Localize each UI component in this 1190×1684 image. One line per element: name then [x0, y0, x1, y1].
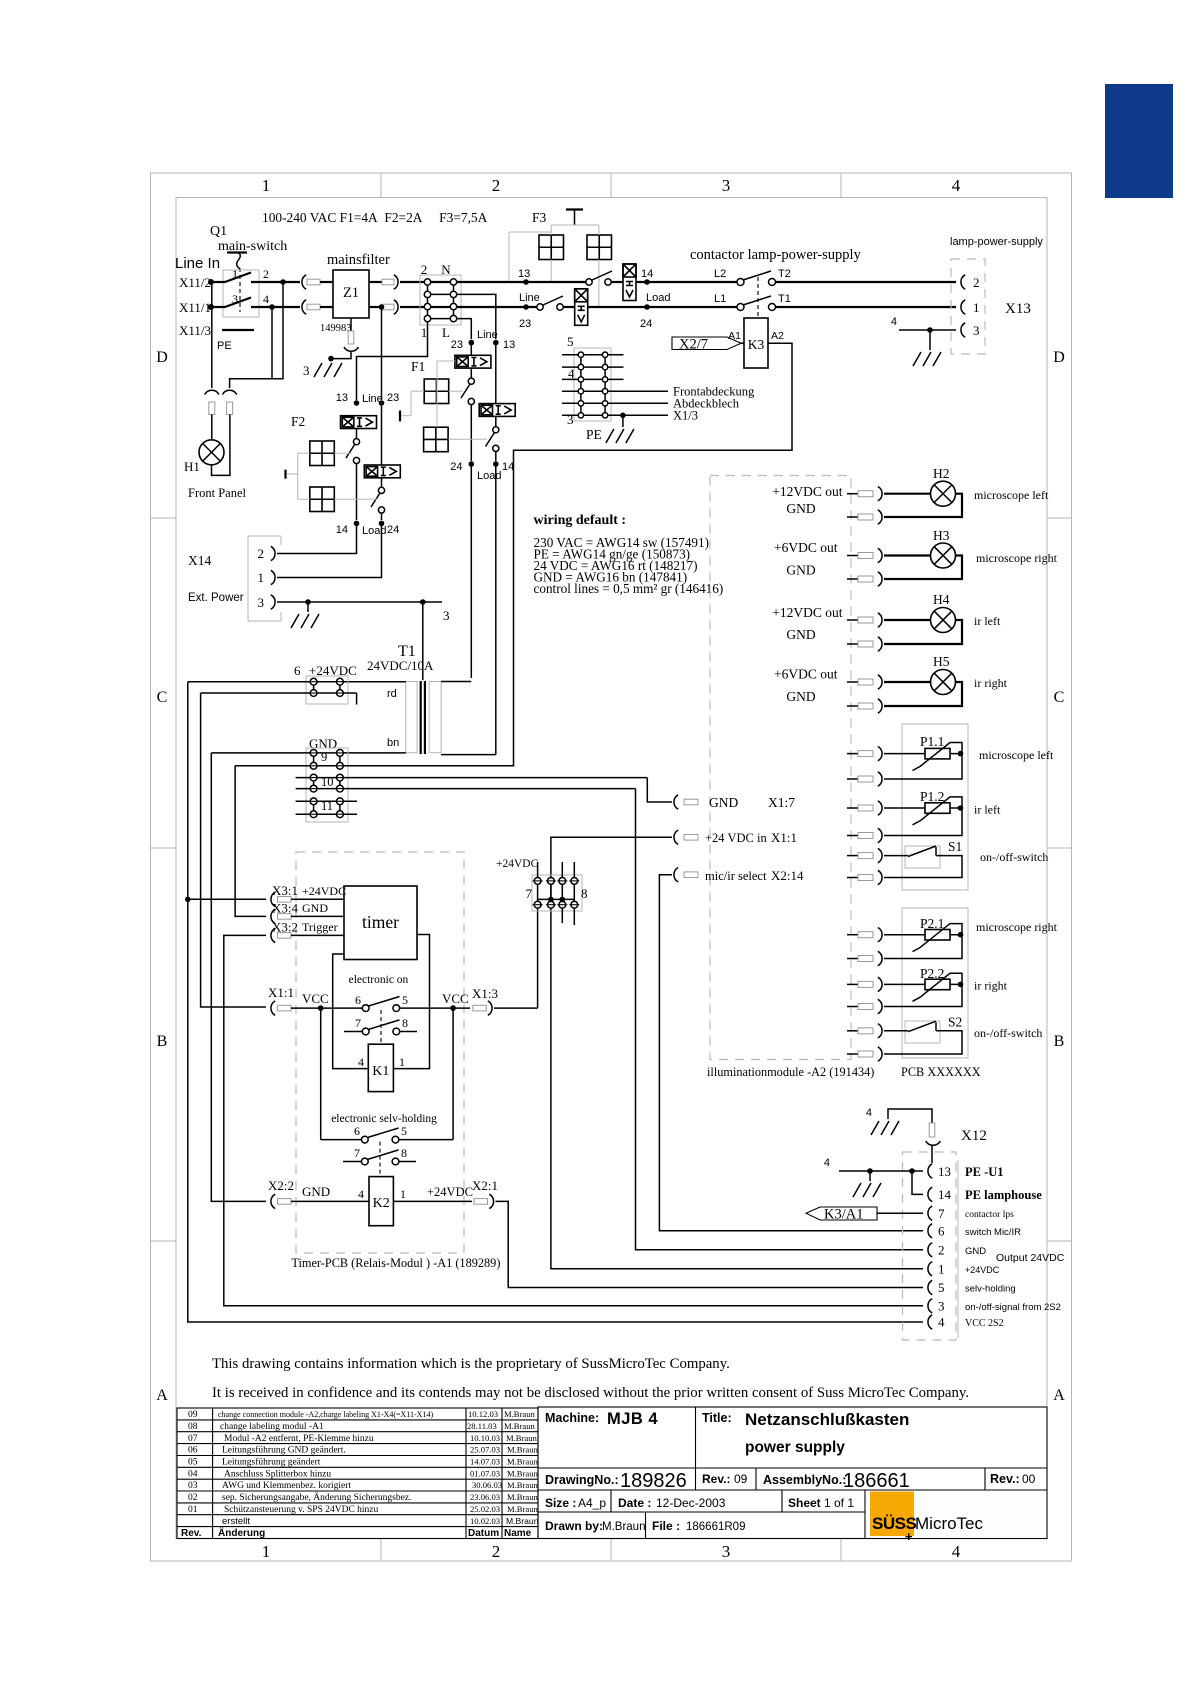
- svg-text:X11/3: X11/3: [179, 323, 211, 338]
- svg-text:X1:3: X1:3: [472, 986, 498, 1001]
- svg-text:M.Braun: M.Braun: [507, 1480, 538, 1490]
- Z1 ground lead: [350, 318, 352, 331]
- svg-text:H1: H1: [184, 459, 200, 474]
- svg-text:M.Braun: M.Braun: [507, 1504, 538, 1514]
- svg-text:Rev.:: Rev.:: [702, 1472, 730, 1486]
- connector X12 dashed outline: [903, 1152, 957, 1340]
- svg-text:M.Braun: M.Braun: [504, 1421, 535, 1431]
- svg-text:4: 4: [891, 316, 897, 328]
- svg-text:Rev.:: Rev.:: [990, 1472, 1020, 1486]
- connector +24VDC in X1:1: [674, 830, 678, 844]
- svg-text:X2:14: X2:14: [771, 868, 804, 883]
- svg-text:GND: GND: [302, 1184, 330, 1199]
- svg-text:D: D: [1053, 349, 1065, 366]
- svg-text:mainsfilter: mainsfilter: [327, 252, 390, 268]
- wire terminal6 row1: [188, 681, 337, 683]
- svg-text:on-/off-switch: on-/off-switch: [974, 1026, 1042, 1040]
- svg-text:Q1: Q1: [210, 224, 227, 239]
- svg-text:Schützansteuerung v. SPS 24VDC: Schützansteuerung v. SPS 24VDC hinzu: [224, 1505, 379, 1515]
- wire GND row9 top: [211, 752, 337, 754]
- svg-text:06: 06: [188, 1446, 198, 1456]
- svg-text:4: 4: [358, 1187, 364, 1201]
- svg-text:23.06.03: 23.06.03: [470, 1492, 500, 1502]
- X12 pin 2: [928, 1243, 932, 1257]
- wire PE to transformer core: [422, 602, 424, 680]
- svg-text:AWG und Klemmenbez. korigiert: AWG und Klemmenbez. korigiert: [222, 1481, 351, 1491]
- svg-text:It is received in confidence a: It is received in confidence and its con…: [212, 1385, 969, 1401]
- svg-text:GND: GND: [302, 901, 328, 915]
- line switch row 23: [537, 304, 543, 310]
- wire GND row11 stubs: [296, 800, 357, 802]
- X12 pin 7: [928, 1206, 932, 1220]
- F2 port tick: [284, 470, 286, 479]
- svg-text:Netzanschlußkasten: Netzanschlußkasten: [745, 1410, 909, 1429]
- svg-text:1: 1: [258, 570, 265, 585]
- svg-text:Name: Name: [504, 1528, 532, 1539]
- F2 breaker 23-24: [364, 465, 400, 478]
- wire F1-24 to transformer primary top: [470, 464, 472, 678]
- Q1 pole 1-2 blade: [225, 273, 251, 283]
- K3 mechanical link: [757, 277, 759, 318]
- wire terminal row N2 to F1-13 branch: [457, 294, 496, 339]
- svg-text:Modul -A2 entfernt, PE-Klemme: Modul -A2 entfernt, PE-Klemme hinzu: [224, 1433, 374, 1444]
- svg-text:H3: H3: [933, 528, 950, 543]
- svg-text:+12VDC out: +12VDC out: [772, 605, 842, 620]
- svg-text:M.Braun: M.Braun: [507, 1457, 538, 1467]
- F3 fuse squares: [539, 235, 564, 260]
- svg-text:4: 4: [358, 1055, 364, 1069]
- wire L column to F2-13 branch: [357, 322, 428, 400]
- svg-text:M.Braun: M.Braun: [507, 1445, 538, 1455]
- svg-text:149983: 149983: [320, 323, 352, 334]
- svg-text:14: 14: [336, 524, 348, 536]
- svg-text:3: 3: [258, 595, 265, 610]
- svg-text:Machine:: Machine:: [545, 1411, 599, 1425]
- svg-text:09: 09: [734, 1472, 748, 1486]
- svg-text:X3:1: X3:1: [272, 883, 298, 898]
- svg-text:Datum: Datum: [468, 1528, 499, 1539]
- ground at X12 PE: [853, 1183, 881, 1197]
- revision table: [177, 1408, 538, 1539]
- wire GND X1:7: [647, 778, 672, 802]
- svg-text:M.Braun: M.Braun: [602, 1521, 645, 1533]
- svg-text:AssemblyNo.:: AssemblyNo.:: [763, 1473, 846, 1487]
- svg-text:ir left: ir left: [974, 803, 1001, 817]
- svg-text:07: 07: [188, 1434, 198, 1444]
- svg-text:8: 8: [402, 1016, 408, 1030]
- svg-text:Drawn by:: Drawn by:: [545, 1519, 603, 1533]
- Z1 output wires: [369, 281, 382, 283]
- svg-text:3: 3: [938, 1299, 945, 1314]
- svg-text:23: 23: [451, 339, 463, 351]
- svg-text:Line: Line: [362, 393, 383, 405]
- svg-text:5: 5: [402, 993, 408, 1007]
- svg-text:5: 5: [401, 1124, 407, 1138]
- svg-text:PE: PE: [586, 427, 602, 442]
- svg-text:MicroTec: MicroTec: [915, 1514, 984, 1533]
- svg-text:+: +: [905, 1529, 913, 1544]
- svg-text:+24 VDC in: +24 VDC in: [705, 831, 767, 845]
- blue corner rectangle: [1105, 84, 1173, 198]
- main switch Q1 actuator: [227, 251, 247, 253]
- svg-text:5: 5: [567, 334, 574, 349]
- svg-text:A4_p: A4_p: [578, 1496, 606, 1510]
- svg-text:X1:7: X1:7: [768, 795, 795, 810]
- svg-text:F2: F2: [291, 414, 305, 429]
- svg-text:3: 3: [303, 363, 310, 378]
- svg-text:09: 09: [188, 1410, 198, 1420]
- SUSS MicroTec logo: [866, 1491, 1047, 1538]
- svg-text:1: 1: [262, 1542, 271, 1561]
- svg-text:Z1: Z1: [343, 285, 359, 301]
- svg-text:7: 7: [355, 1016, 361, 1030]
- svg-text:B: B: [1054, 1033, 1065, 1050]
- svg-text:1: 1: [262, 176, 271, 195]
- svg-text:+6VDC out: +6VDC out: [774, 540, 838, 555]
- svg-text:186661: 186661: [843, 1470, 910, 1492]
- svg-text:timer: timer: [362, 912, 399, 932]
- svg-text:4: 4: [938, 1315, 945, 1330]
- X12 pin 13: [928, 1164, 932, 1178]
- wire X2:1 to X12 pin5: [496, 1201, 924, 1287]
- svg-text:X13: X13: [1005, 301, 1031, 317]
- wire GND row10 bottom to X12 pin2: [296, 788, 636, 790]
- svg-text:Date :: Date :: [618, 1496, 651, 1510]
- ground at X14: [291, 614, 319, 628]
- ground at X13: [913, 352, 941, 366]
- svg-text:1: 1: [400, 1187, 406, 1201]
- svg-text:mic/ir select: mic/ir select: [705, 869, 767, 883]
- X12 pin 14: [928, 1187, 932, 1201]
- svg-text:A: A: [1053, 1387, 1065, 1404]
- svg-text:01: 01: [188, 1505, 198, 1515]
- svg-text:X2:1: X2:1: [472, 1178, 498, 1193]
- svg-text:13: 13: [938, 1164, 951, 1179]
- svg-text:+24VDC: +24VDC: [496, 858, 539, 870]
- X12 pin 5: [928, 1280, 932, 1294]
- H1 feed wires: [211, 282, 213, 388]
- svg-text:6: 6: [354, 1124, 360, 1138]
- lamp H1: [211, 415, 213, 441]
- terminal block N/L: [420, 275, 461, 325]
- svg-text:100-240 VAC F1=4A F2=2A F: 100-240 VAC F1=4A F2=2A F3=7,5A: [262, 210, 488, 225]
- left ruler ticks: [151, 518, 177, 1241]
- svg-text:sep. Sicherungsangabe, Änderun: sep. Sicherungsangabe, Änderung Sicherun…: [222, 1491, 411, 1503]
- svg-text:X11/1: X11/1: [179, 300, 211, 315]
- F2 fuse squares: [310, 441, 335, 466]
- svg-text:Front Panel: Front Panel: [188, 486, 247, 500]
- svg-text:M.Braun: M.Braun: [507, 1492, 538, 1502]
- svg-text:microscope left: microscope left: [979, 748, 1054, 762]
- wire timer to K1 coil right: [393, 935, 429, 1069]
- svg-text:H2: H2: [933, 466, 950, 481]
- svg-text:2: 2: [258, 546, 265, 561]
- svg-text:X2/7: X2/7: [679, 337, 708, 353]
- svg-text:7: 7: [354, 1146, 360, 1160]
- svg-text:13: 13: [503, 339, 515, 351]
- connector mic/ir select X2:14: [674, 868, 678, 882]
- X12 pin 4: [928, 1315, 932, 1329]
- title block grid: [538, 1407, 1047, 1539]
- svg-text:K3: K3: [748, 337, 765, 352]
- svg-text:5: 5: [938, 1280, 945, 1295]
- svg-text:C: C: [1054, 689, 1065, 706]
- svg-text:2: 2: [973, 275, 980, 290]
- svg-text:GND: GND: [786, 563, 815, 578]
- svg-text:Load: Load: [477, 470, 501, 482]
- svg-text:Rev.: Rev.: [181, 1528, 202, 1539]
- svg-text:PE lamphouse: PE lamphouse: [965, 1188, 1042, 1202]
- ground at Z1: [314, 363, 342, 377]
- svg-text:04: 04: [188, 1469, 198, 1479]
- svg-text:T1: T1: [778, 293, 791, 305]
- svg-text:wiring default :: wiring default :: [534, 513, 627, 528]
- svg-text:ir right: ir right: [974, 979, 1008, 993]
- svg-text:PE -U1: PE -U1: [965, 1165, 1004, 1179]
- bundle wire v4 trigger to X12 pin3: [224, 935, 923, 1305]
- wire timer to K1 coil left: [333, 954, 369, 1069]
- svg-text:2: 2: [263, 267, 269, 281]
- svg-text:GND: GND: [786, 689, 815, 704]
- svg-text:23: 23: [387, 392, 399, 404]
- svg-text:3: 3: [973, 323, 980, 338]
- svg-text:+12VDC out: +12VDC out: [772, 484, 842, 499]
- svg-text:3: 3: [722, 1542, 731, 1561]
- svg-text:189826: 189826: [620, 1470, 687, 1492]
- svg-text:13: 13: [518, 268, 530, 280]
- svg-text:10.10.03: 10.10.03: [470, 1433, 500, 1443]
- svg-text:1: 1: [399, 1055, 405, 1069]
- svg-text:X1:1: X1:1: [771, 830, 797, 845]
- svg-text:GND: GND: [709, 795, 738, 810]
- svg-text:00: 00: [1022, 1472, 1036, 1486]
- svg-text:microscope left: microscope left: [974, 488, 1049, 502]
- HV breaker row 23: [575, 289, 588, 326]
- svg-text:4: 4: [866, 1107, 872, 1119]
- svg-text:1 of 1: 1 of 1: [824, 1496, 854, 1510]
- svg-text:microscope right: microscope right: [976, 551, 1058, 565]
- svg-text:VCC: VCC: [302, 991, 329, 1006]
- svg-text:Anschluss Splitterbox hinzu: Anschluss Splitterbox hinzu: [224, 1469, 331, 1479]
- svg-text:T2: T2: [778, 268, 791, 280]
- svg-text:H4: H4: [933, 592, 950, 607]
- F1 port tick: [399, 411, 401, 422]
- F3 antenna: [566, 208, 583, 210]
- svg-text:186661R09: 186661R09: [686, 1521, 745, 1533]
- wire GND row9 bottom to K3-A2 rail: [235, 765, 513, 767]
- svg-text:03: 03: [188, 1481, 198, 1491]
- svg-text:25.07.03: 25.07.03: [470, 1445, 500, 1455]
- wire +24VDC in to X12 pin1: [551, 837, 923, 1269]
- svg-text:GND: GND: [786, 501, 815, 516]
- svg-text:+24VDC: +24VDC: [427, 1185, 473, 1199]
- svg-text:6: 6: [938, 1224, 945, 1239]
- svg-text:L: L: [442, 325, 450, 340]
- svg-text:Line: Line: [519, 292, 540, 304]
- svg-text:GND: GND: [786, 627, 815, 642]
- T1 secondary wires: [343, 681, 406, 683]
- svg-text:23: 23: [519, 318, 531, 330]
- svg-text:24VDC/10A: 24VDC/10A: [367, 658, 434, 673]
- svg-text:Size :: Size :: [545, 1496, 576, 1510]
- wire F1-14 to transformer primary bottom: [495, 464, 497, 755]
- wire terminal6 row2: [201, 693, 357, 705]
- svg-text:9: 9: [321, 750, 327, 764]
- sheet outer frame: [151, 173, 1072, 1561]
- F2 gray leads: [298, 453, 377, 499]
- svg-text:change labeling modul -A1: change labeling modul -A1: [220, 1422, 324, 1432]
- svg-text:This drawing contains informat: This drawing contains information which …: [212, 1356, 730, 1372]
- svg-text:7: 7: [938, 1206, 945, 1221]
- svg-text:24: 24: [450, 461, 462, 473]
- svg-text:13: 13: [336, 392, 348, 404]
- svg-text:2: 2: [938, 1243, 945, 1258]
- svg-text:02: 02: [188, 1493, 198, 1503]
- svg-text:MJB 4: MJB 4: [607, 1410, 658, 1428]
- PE ground at X1/3: [620, 413, 626, 419]
- revision table entries: [188, 1409, 539, 1527]
- wire row L2 to filter: [251, 306, 300, 308]
- svg-text:24: 24: [387, 524, 399, 536]
- svg-text:8: 8: [401, 1146, 407, 1160]
- svg-text:P1.2: P1.2: [920, 789, 944, 804]
- F1 breaker 13-14: [479, 404, 515, 417]
- Timer PCB dashed outline: [296, 852, 464, 1253]
- svg-text:electronic on: electronic on: [349, 974, 409, 986]
- svg-text:control lines = 0,5 mm² gr (14: control lines = 0,5 mm² gr (146416): [534, 581, 724, 596]
- svg-text:P1.1: P1.1: [920, 734, 944, 749]
- svg-text:microscope right: microscope right: [976, 920, 1058, 934]
- relay coil K2: [369, 1177, 393, 1226]
- svg-text:VCC 2S2: VCC 2S2: [965, 1318, 1004, 1329]
- svg-text:10.12.03: 10.12.03: [468, 1409, 498, 1419]
- bundle wire v5 GND to X3:4: [235, 766, 266, 917]
- svg-text:Sheet: Sheet: [788, 1496, 821, 1510]
- svg-text:X14: X14: [188, 553, 211, 568]
- T1 primary wires: [441, 681, 471, 683]
- svg-text:L2: L2: [714, 268, 726, 280]
- flag K3/A1: [806, 1207, 877, 1220]
- svg-text:Output 24VDC: Output 24VDC: [996, 1252, 1065, 1264]
- svg-text:M.Braun: M.Braun: [506, 1516, 539, 1526]
- wire pin13 to pin14: [912, 1171, 923, 1194]
- wire row L1 to filter: [251, 281, 300, 283]
- flag X2/7: [672, 337, 741, 350]
- PCB gray box upper: [902, 724, 968, 890]
- svg-text:X1:1: X1:1: [268, 985, 294, 1000]
- svg-text:Timer-PCB (Relais-Modul ) -A1: Timer-PCB (Relais-Modul ) -A1 (189289): [291, 1256, 500, 1270]
- svg-text:Load: Load: [646, 292, 670, 304]
- svg-text:M.Braun: M.Braun: [507, 1468, 538, 1478]
- X12 pin 3: [928, 1299, 932, 1313]
- svg-text:7: 7: [526, 886, 533, 901]
- svg-text:ir left: ir left: [974, 614, 1001, 628]
- svg-text:10.02.03: 10.02.03: [470, 1516, 500, 1526]
- F1 gray leads: [411, 361, 487, 439]
- wire X14 pin3 PE: [277, 601, 442, 603]
- svg-text:B: B: [157, 1033, 168, 1050]
- svg-text:K2: K2: [373, 1196, 390, 1211]
- svg-text:illuminationmodule -A2 (191434: illuminationmodule -A2 (191434): [707, 1065, 874, 1079]
- svg-text:L1: L1: [714, 293, 726, 305]
- relay coil K1: [368, 1044, 393, 1091]
- X12 pin 1: [928, 1262, 932, 1276]
- svg-text:F3: F3: [532, 210, 547, 225]
- svg-text:+6VDC out: +6VDC out: [774, 667, 838, 682]
- F1 fuse squares: [424, 379, 449, 404]
- bottom ruler ticks: [381, 1539, 841, 1562]
- svg-text:contactor lps: contactor lps: [965, 1210, 1014, 1220]
- wire: [211, 306, 225, 308]
- svg-text:selv-holding: selv-holding: [965, 1284, 1016, 1295]
- svg-text:bn: bn: [387, 737, 399, 749]
- svg-text:05: 05: [188, 1458, 198, 1468]
- svg-text:2: 2: [492, 1542, 501, 1561]
- wire X1:3 to +24VDC feedthrough: [537, 902, 539, 1008]
- svg-text:Line In: Line In: [175, 255, 220, 272]
- svg-text:K3/A1: K3/A1: [824, 1207, 863, 1223]
- svg-text:S1: S1: [948, 839, 962, 854]
- parallel branch verticals: [320, 1008, 322, 1140]
- svg-text:25.02.03: 25.02.03: [470, 1504, 500, 1514]
- svg-text:Line: Line: [477, 329, 498, 341]
- svg-text:H5: H5: [933, 654, 950, 669]
- svg-text:electronic selv-holding: electronic selv-holding: [331, 1113, 437, 1125]
- svg-text:X12: X12: [961, 1128, 987, 1144]
- svg-text:PCB XXXXXX: PCB XXXXXX: [901, 1065, 981, 1079]
- right ruler ticks: [1047, 518, 1072, 1241]
- svg-text:3: 3: [443, 608, 450, 623]
- wire GND row10b to X12 pin2: [636, 789, 924, 1250]
- svg-text:14: 14: [641, 268, 653, 280]
- wire terminal row L1 to F1-23 branch: [457, 319, 472, 339]
- svg-text:M.Braun: M.Braun: [506, 1433, 537, 1443]
- svg-text:30.06.03: 30.06.03: [472, 1480, 502, 1490]
- svg-text:X11/2: X11/2: [179, 275, 211, 290]
- X12 pin 6: [928, 1224, 932, 1238]
- wire K2 to X2:1: [393, 1200, 472, 1202]
- svg-text:1: 1: [421, 325, 428, 340]
- svg-text:Trigger: Trigger: [302, 920, 338, 934]
- svg-text:N: N: [441, 262, 451, 277]
- svg-text:M.Braun: M.Braun: [504, 1409, 535, 1419]
- svg-text:2: 2: [492, 176, 501, 195]
- contactor coil K3: [744, 318, 768, 368]
- svg-text:DrawingNo.:: DrawingNo.:: [545, 1473, 619, 1487]
- svg-text:GND: GND: [965, 1246, 986, 1257]
- top ruler ticks: [381, 173, 841, 198]
- svg-text:Ext. Power: Ext. Power: [188, 592, 244, 604]
- svg-text:F1: F1: [411, 359, 425, 374]
- svg-text:12-Dec-2003: 12-Dec-2003: [656, 1496, 726, 1510]
- svg-text:01.07.03: 01.07.03: [470, 1468, 500, 1478]
- svg-text:power supply: power supply: [745, 1439, 845, 1456]
- svg-text:3: 3: [567, 412, 574, 427]
- svg-text:+24VDC: +24VDC: [302, 884, 346, 898]
- svg-text:rd: rd: [387, 688, 397, 700]
- svg-text:K1: K1: [372, 1064, 389, 1079]
- svg-text:+24VDC: +24VDC: [965, 1265, 1000, 1275]
- HV breaker row 13: [623, 264, 636, 301]
- wire X14 pin1 to F2 load 24: [277, 523, 382, 577]
- svg-text:8: 8: [581, 886, 588, 901]
- svg-text:14.07.03: 14.07.03: [470, 1457, 500, 1467]
- svg-text:6: 6: [294, 663, 301, 678]
- svg-text:A: A: [156, 1387, 168, 1404]
- svg-text:switch Mic/IR: switch Mic/IR: [965, 1227, 1021, 1238]
- sheet inner frame: [176, 198, 1047, 1539]
- svg-text:1: 1: [232, 267, 238, 281]
